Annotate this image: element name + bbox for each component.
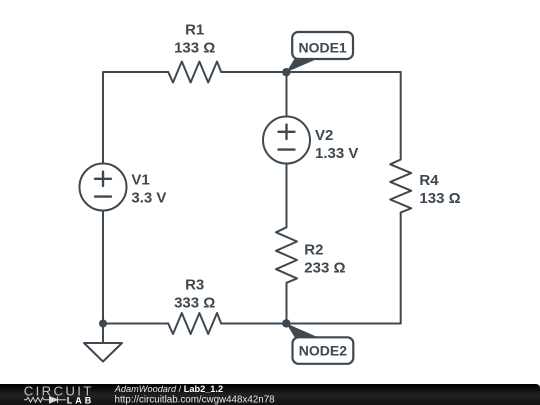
wire middle branch NODE1 to V2	[286, 72, 288, 117]
svg-text:V2: V2	[315, 127, 333, 144]
svg-text:1.33 V: 1.33 V	[315, 145, 358, 162]
callout NODE2	[286, 323, 353, 363]
wire left rail lower (V1 to ground node)	[102, 211, 104, 324]
voltage source V2	[263, 117, 310, 164]
wire bottom rail	[221, 323, 401, 325]
svg-text:R1: R1	[185, 22, 204, 39]
svg-text:3.3 V: 3.3 V	[131, 190, 166, 207]
svg-text:V1: V1	[131, 172, 149, 189]
svg-text:233 Ω: 233 Ω	[304, 260, 345, 277]
wire R2 to NODE2	[286, 283, 288, 324]
svg-text:http://circuitlab.com/cwgw448x: http://circuitlab.com/cwgw448x42n78	[115, 395, 276, 405]
svg-text:333 Ω: 333 Ω	[174, 295, 215, 312]
resistor R2	[276, 227, 297, 282]
wire right rail lower	[400, 213, 402, 324]
resistor R4	[390, 160, 411, 213]
svg-text:AdamWoodard / Lab2_1.2: AdamWoodard / Lab2_1.2	[114, 384, 223, 394]
wire top rail left of R1	[103, 72, 168, 164]
svg-text:NODE2: NODE2	[299, 342, 347, 358]
callout NODE1	[286, 32, 353, 72]
wire V2 to R2	[286, 164, 288, 228]
svg-text:133 Ω: 133 Ω	[419, 190, 460, 207]
svg-text:LAB: LAB	[67, 395, 95, 405]
resistor R3	[168, 313, 221, 334]
wire right rail upper	[400, 72, 402, 160]
svg-text:R4: R4	[419, 172, 439, 189]
voltage source V1	[80, 164, 127, 211]
junction dot NODE2	[282, 319, 290, 327]
svg-text:NODE1: NODE1	[298, 40, 346, 56]
svg-text:133 Ω: 133 Ω	[174, 40, 215, 57]
wire top rail right of R1	[221, 71, 401, 73]
CircuitLab logo resistor-diode glyph	[24, 397, 66, 403]
svg-text:R3: R3	[185, 277, 204, 294]
junction dot NODE1	[282, 68, 290, 76]
resistor R1	[168, 62, 221, 83]
junction dot ground node	[99, 320, 107, 328]
ground symbol	[84, 324, 122, 362]
svg-text:R2: R2	[304, 242, 323, 259]
wire bottom rail left of R3	[103, 323, 168, 325]
